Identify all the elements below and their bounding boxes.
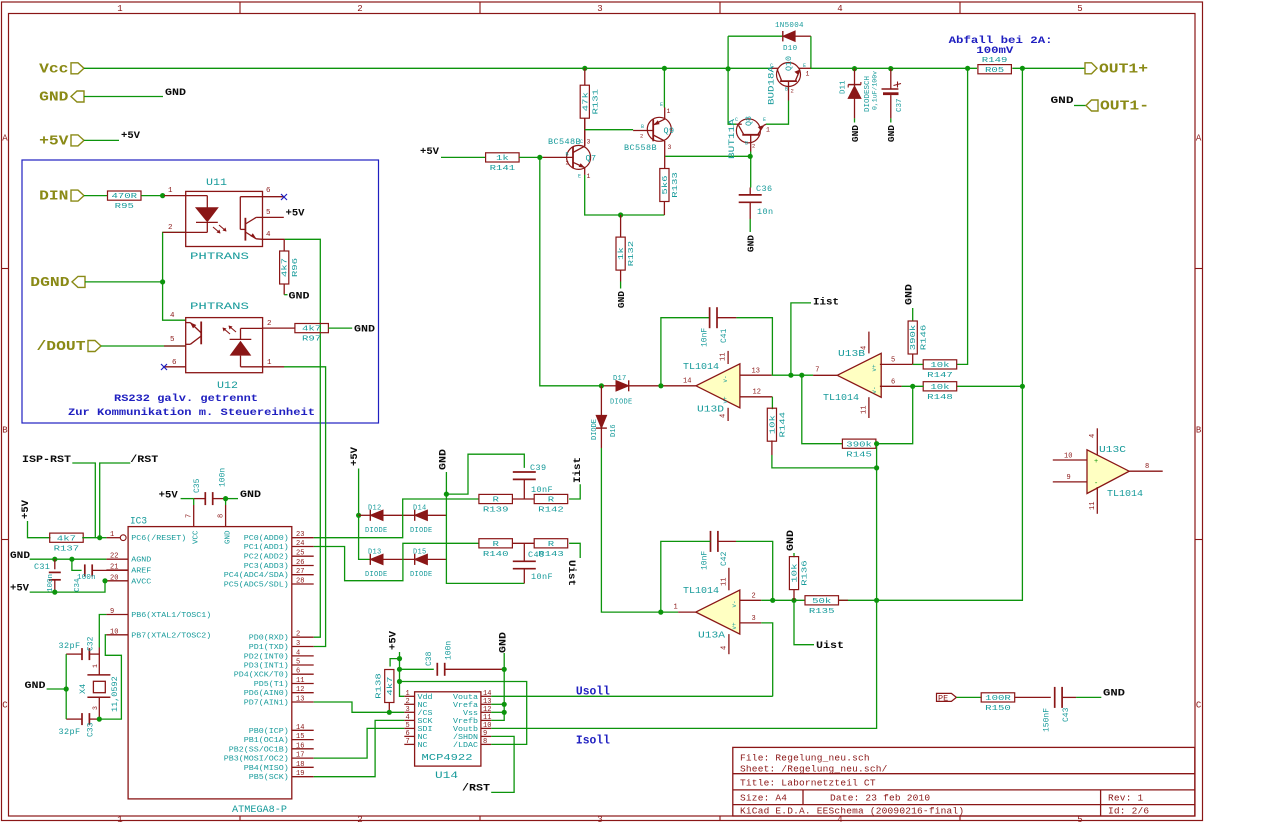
svg-text:C36: C36 [756,184,773,194]
op-amp U13A [696,590,740,634]
svg-text:R137: R137 [54,545,80,553]
svg-text:6: 6 [296,668,300,676]
resistor R131 [580,85,600,118]
wire PB7 to X4 pin3 [99,635,121,719]
junction Q8 base C36 [748,154,753,159]
U12 pin2 lead to R97 [263,327,296,329]
resistor R148 [923,382,957,402]
local label Iist (U13B) [813,297,839,309]
svg-text:13: 13 [752,368,760,376]
C41 reference [720,328,729,343]
U12 pin1 lead [263,366,284,368]
svg-text:10nF: 10nF [531,485,553,495]
Q9 pin annotations [640,102,672,151]
svg-text:GND: GND [746,235,757,252]
svg-text:C: C [735,117,738,123]
svg-text:10: 10 [110,628,118,636]
svg-text:8: 8 [218,514,226,518]
wire GND to Vrefa [491,703,504,705]
wire C32 C33 left rail [65,654,67,719]
local label Isoll [576,735,610,748]
U13D pin numbers [683,353,761,418]
svg-text:C34: C34 [74,578,82,592]
junction GND crystal [64,686,69,691]
wire GND to Vrefb [491,653,504,720]
Q10 pin annotations [770,63,810,95]
capacitor C42 [711,531,718,552]
C38 value 100n [445,641,454,660]
svg-text:2: 2 [791,88,794,95]
svg-text:GND: GND [1051,95,1074,107]
transistor Q9 BC558B [633,108,671,169]
U11 pin4 lead [263,238,285,240]
svg-text:Title: Labornetzteil CT: Title: Labornetzteil CT [740,778,876,789]
svg-text:11: 11 [296,677,304,685]
svg-text:PC4(ADC4/SDA): PC4(ADC4/SDA) [224,572,289,580]
D10 reference [783,45,798,53]
local label +5V (+5VD wire) [121,130,141,142]
wire R132 to GND [620,282,622,289]
svg-text:D11: D11 [840,80,848,94]
svg-text:B: B [785,87,788,93]
svg-text:VCC: VCC [193,530,201,544]
wire SCK net [314,720,405,776]
R133 leads [663,168,665,215]
capacitor C37 polarized [882,69,902,119]
wire R96 to GND [284,294,287,296]
hierarchical label +5VD [39,133,84,149]
junction C42 V- [770,598,775,603]
wire sense+ down to R147 [956,68,967,364]
svg-text:Vcc: Vcc [39,61,68,77]
svg-text:C41: C41 [720,328,729,343]
wire C36 to GND [749,219,751,232]
svg-text:PB1(OC1A): PB1(OC1A) [244,737,289,745]
svg-text:10k: 10k [792,563,800,583]
IC3 reference [130,517,147,528]
svg-text:27: 27 [296,568,304,576]
local label GND (GNDD wire) [165,87,186,99]
svg-text:R139: R139 [483,507,509,515]
diode D16 [600,386,602,416]
C43 right lead [1062,696,1076,698]
D15 anode to GND rail [427,558,446,560]
capacitor C41 [710,307,717,328]
diode D14 body [415,510,428,521]
svg-text:24: 24 [296,540,304,548]
local label GND (crystal) [25,680,46,692]
junction Vcc R131 [582,66,587,71]
C38 reference [425,651,434,666]
wire GND to AGND [30,558,107,560]
svg-text:NC: NC [418,742,429,750]
U13B value TL1014 [823,393,859,403]
svg-text:6: 6 [891,379,895,387]
junction at U11 pin 1 [160,193,165,198]
local label +5V (C35) [159,490,179,502]
wire R145 to V- [876,386,913,443]
wire +5V to R137 [28,521,51,538]
Q10 reference [784,56,794,71]
op-amp U13D [696,364,740,408]
svg-text:12: 12 [753,389,761,397]
svg-text:100n: 100n [219,468,228,487]
C42 right wire [718,540,736,542]
wire +5V to C38 [400,668,434,670]
svg-text:3: 3 [587,139,591,146]
diode D10 1N5004 [728,31,811,69]
svg-text:R96: R96 [292,257,300,277]
svg-text:E: E [660,102,663,108]
junction C38 +5V [397,667,402,672]
local label GND (D11) [850,125,861,142]
U12 pin6 lead and no-connect [161,364,186,370]
D12 value DIODE [365,527,388,535]
svg-text:U14: U14 [435,771,458,782]
svg-text:26: 26 [296,559,304,567]
resistor R138 [376,670,395,703]
wire R139 to R142 [512,498,534,500]
resistor R146 [908,321,928,354]
C32 left lead [66,653,82,655]
Q7 reference [586,154,597,164]
local label +5V (R137) [20,499,32,519]
svg-text:PC1(ADD1): PC1(ADD1) [244,544,289,552]
svg-text:C40: C40 [528,550,545,560]
junction C34 [69,557,74,562]
wire U11 pin4 / RXD net [285,239,321,637]
svg-text:4: 4 [721,646,729,650]
svg-text:C: C [2,701,8,711]
wire PC0 to R139 [314,499,479,538]
capacitor C43 [1055,687,1062,708]
C33 value 32pF [59,727,81,737]
C31 top lead [54,559,56,569]
svg-text:GND: GND [498,632,510,653]
svg-text:R95: R95 [115,203,135,211]
svg-text:390k: 390k [910,324,918,350]
svg-text:32pF: 32pF [59,641,81,651]
svg-text:1: 1 [267,359,272,367]
svg-text:BC548B: BC548B [548,137,581,147]
svg-text:DIODE: DIODE [365,571,388,579]
svg-text:PB2(SS/OC1B): PB2(SS/OC1B) [229,746,289,754]
svg-text:C32: C32 [87,636,96,651]
svg-text:11: 11 [720,353,728,361]
svg-text:10k: 10k [930,362,950,370]
wire +5V to /LDAC [400,682,527,745]
Q7 pin annotations [566,139,591,181]
svg-text:17: 17 [296,752,304,760]
local label Uist (filter) [565,560,577,586]
svg-text:SDI: SDI [418,726,433,734]
svg-text:/DOUT: /DOUT [37,339,86,355]
hierarchical label OUT1- [1086,99,1149,115]
wire U11 pin2 to RXD net [163,232,186,320]
svg-text:DIODE: DIODE [610,399,633,407]
svg-text:10k: 10k [930,384,950,392]
svg-text:DIODE: DIODE [410,571,433,579]
svg-text:+5V: +5V [159,490,179,502]
svg-text:PC2(ADD2): PC2(ADD2) [244,554,289,562]
R136 top lead [793,553,795,557]
C35 value 100n [219,468,228,487]
svg-text:R: R [493,541,500,549]
resistor R145 [842,439,876,459]
R146 bottom lead [912,355,914,365]
local label GND (R136) [785,530,797,551]
wire Q7 base down to D17 [540,157,602,385]
svg-text:PD0(RXD): PD0(RXD) [249,635,289,643]
wire Vcc rail [84,67,771,69]
IC3 left side pins [106,531,211,640]
svg-text:1: 1 [674,604,678,612]
svg-text:A: A [2,134,8,144]
hierarchical label GNDD [39,90,84,106]
local label GND (C36) [746,235,757,252]
C36 leads [749,188,751,220]
svg-text:+5V: +5V [121,130,141,142]
D11 reference [840,80,848,94]
local label /RST [130,454,158,466]
junction R144 Isoll [874,465,879,470]
wire to GND label [226,498,238,500]
svg-text:100n: 100n [47,574,55,592]
C31 value 100n [47,574,55,592]
wire Vouta Usoll [491,695,773,697]
svg-text:Size: A4: Size: A4 [740,793,787,804]
C39 bottom lead [523,479,525,499]
resistor R149 [978,57,1012,75]
X4 value 11,0592 [110,676,120,712]
resistor R141 [486,153,519,173]
U13A pin leads [678,568,761,654]
svg-text:12: 12 [296,686,304,694]
svg-text:R138: R138 [376,673,384,699]
junction D17 D16 [599,383,604,388]
svg-text:19: 19 [296,770,304,778]
local label GND (R132) [616,291,627,308]
resistor R147 [923,360,957,380]
C43 reference [1062,707,1071,722]
svg-text:5: 5 [170,336,175,344]
wire GND to OUT1- [1074,105,1086,107]
svg-text:+5V: +5V [39,133,69,149]
junction C35 GND pin [223,496,228,501]
D12 cathode lead [359,514,370,516]
svg-text:1k: 1k [618,247,626,260]
svg-text:8: 8 [1145,463,1149,471]
transistor Q7 BC548B [543,118,591,175]
Q7 value BC548B [548,137,581,147]
U13A input polarity marks [731,600,738,629]
svg-text:C: C [1196,701,1202,711]
svg-text:R141: R141 [490,165,516,173]
junction C41 output [658,383,663,388]
diode D15 body [415,554,428,565]
Q8 value BUT11A [727,118,737,159]
local label +5V (U14) [388,630,400,650]
capacitor C40 [513,561,536,568]
svg-text:C: C [770,63,773,69]
wire GND to C39 top [446,454,524,494]
svg-text:2: 2 [406,698,410,706]
local label GND (C37) [886,125,897,142]
svg-text:1: 1 [92,664,99,668]
svg-text:R145: R145 [846,451,872,459]
svg-text:Q10: Q10 [784,56,794,71]
wire R143 to Uist [569,543,580,558]
svg-text:BUT11A: BUT11A [727,118,737,159]
svg-text:Vdd: Vdd [418,694,433,702]
Q8 pin annotations [735,117,770,150]
U13C value TL1014 [1107,489,1143,499]
local label +5V (clamp) [349,446,361,466]
svg-text:TL1014: TL1014 [823,393,859,403]
svg-text:DIODE: DIODE [410,527,433,535]
wire Q7 emitter rail [585,175,665,215]
svg-text:GND: GND [25,680,46,692]
wire R150 to C43 [1015,696,1051,698]
svg-text:0,1uF/100v: 0,1uF/100v [872,71,879,110]
svg-text:Iist: Iist [572,457,584,483]
U13B pin numbers [815,346,895,414]
svg-text:R97: R97 [302,336,321,344]
U13B input polarity marks [871,364,878,394]
capacitor C33 [82,713,89,725]
svg-text:4: 4 [266,231,271,239]
svg-text:4k7: 4k7 [387,676,395,695]
wire C37 to GND [890,118,892,122]
svg-text:ATMEGA8-P: ATMEGA8-P [232,805,287,816]
wire D16 to U13A output [601,448,678,612]
svg-text:TL1014: TL1014 [1107,489,1143,499]
svg-text:GND: GND [165,87,186,99]
svg-text:R: R [548,541,555,549]
svg-text:D16: D16 [610,424,618,437]
Q9 value BC558B [624,143,657,153]
diode D17 [601,385,616,387]
C33 left lead [66,718,82,720]
wire ISP-RST [72,463,95,538]
wire R140 to R143 [512,542,534,544]
svg-text:/SHDN: /SHDN [453,734,478,742]
svg-text:3: 3 [597,4,602,14]
resistor R137 [50,533,83,553]
svg-text:C37: C37 [896,98,904,112]
local label GND (C35) [240,489,261,501]
local label Uist (U13A) [816,640,844,652]
U13B pin leads [813,332,913,418]
transistor Q10 BUD18A [771,63,811,101]
svg-text:10k: 10k [769,414,777,434]
diode D16 body [596,415,607,428]
C35 left lead [194,498,206,500]
svg-text:5: 5 [891,357,895,365]
svg-text:B: B [745,141,748,147]
IC IC3 ATMEGA8-P body [128,527,292,799]
svg-text:PD7(AIN1): PD7(AIN1) [244,700,289,708]
svg-text:4: 4 [1089,434,1097,438]
svg-text:PC3(ADD3): PC3(ADD3) [244,563,289,571]
C39 value 10nF [531,485,553,495]
wire Vcc to Q9 emitter [663,68,665,107]
svg-text:OUT1-: OUT1- [1100,99,1149,115]
svg-text:/LDAC: /LDAC [453,742,479,750]
svg-text:4: 4 [837,4,842,14]
svg-text:DIN: DIN [39,189,68,205]
junction Vrefa [502,702,507,707]
svg-text:File: Regelung_neu.sch: File: Regelung_neu.sch [740,753,870,764]
local label Iist (filter) [572,457,584,483]
svg-text:NC: NC [418,702,429,710]
junction R138 /CS [387,710,392,715]
junction C31 +5V [52,590,57,595]
wire D13 to D15 [383,558,415,560]
svg-text:U11: U11 [206,178,227,189]
svg-text:+: + [1094,458,1098,466]
svg-text:DIODE: DIODE [591,419,599,440]
wire Vcc rail right [811,67,977,69]
global label PE [937,693,957,703]
wire R146 to R147 [913,363,924,365]
svg-text:R132: R132 [628,241,636,267]
C35 right lead [213,498,226,500]
svg-text:E: E [803,63,806,69]
svg-text:C33: C33 [87,722,96,737]
svg-text:10: 10 [1064,453,1072,461]
U13C pin numbers [1064,434,1149,510]
svg-text:Usoll: Usoll [576,686,610,699]
junction Vcc Q9 emitter [662,66,667,71]
svg-text:PB7(XTAL2/TOSC2): PB7(XTAL2/TOSC2) [131,632,211,640]
svg-text:25: 25 [296,550,304,558]
svg-text:PB5(SCK): PB5(SCK) [249,774,289,782]
C41 right wire [717,317,736,319]
svg-text:470R: 470R [112,193,138,201]
resistor R136 [789,557,809,590]
D12 reference [368,505,382,513]
svg-text:/RST: /RST [462,783,490,795]
svg-text:1: 1 [667,108,671,115]
D17 reference [613,375,627,383]
C41 value 10nF [701,328,710,347]
diode D13 body [370,554,383,565]
C40 value 10nF [531,572,553,582]
U13D output lead [629,385,696,387]
svg-text:3: 3 [296,640,300,648]
svg-text:RS232 galv. getrennt: RS232 galv. getrennt [114,393,258,405]
resistor R97 [295,324,329,344]
svg-text:100R: 100R [985,695,1011,703]
wire PE to R150 [956,696,981,698]
U13A pin numbers [674,578,756,650]
diode D17 body [616,380,629,391]
resistor R144 [767,408,787,441]
C34 reference [74,578,82,592]
hierarchical label /DOUTD [37,339,102,355]
junction GND C39 tap [444,492,449,497]
C43 value 150nF [1043,708,1052,732]
svg-text:MCP4922: MCP4922 [422,752,473,763]
diode D12 body [370,510,383,521]
R146 top lead [912,308,914,321]
IC3 right side pins [224,531,314,782]
D15 reference [413,549,427,557]
svg-text:5: 5 [296,659,300,667]
svg-text:+5V: +5V [349,446,361,466]
svg-text:16: 16 [296,742,304,750]
